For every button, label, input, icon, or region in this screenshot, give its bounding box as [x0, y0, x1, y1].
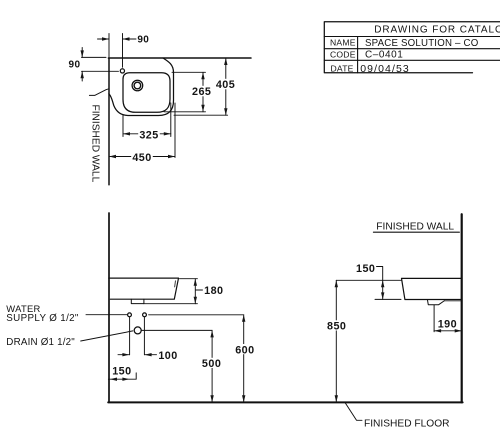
svg-text:FINISHED WALL: FINISHED WALL [376, 221, 454, 232]
svg-text:190: 190 [438, 319, 457, 331]
right sink elevation [402, 278, 462, 299]
right sink fitting to wall [445, 300, 462, 302]
svg-text:09/04/53: 09/04/53 [360, 63, 410, 75]
dim 180: label [204, 285, 223, 297]
svg-text:SPACE SOLUTION – CO: SPACE SOLUTION – CO [365, 38, 479, 49]
dim 180: dimension line [195, 279, 202, 304]
dim 150 right: dimension line [377, 267, 383, 300]
plan view: wall top [108, 57, 251, 59]
sink deck outline (plan) [109, 58, 174, 116]
left sink elevation: rim [109, 278, 179, 299]
dim 500: label [201, 358, 223, 370]
water supply label [6, 303, 79, 324]
svg-text:325: 325 [139, 129, 158, 141]
dim 450: dimension line [109, 156, 175, 158]
dim 150 bottom-left: label [112, 365, 131, 377]
extension to 500 [141, 329, 212, 331]
svg-text:180: 180 [204, 285, 223, 297]
plan view: wall left [108, 58, 110, 185]
dim 265: dimension line [202, 72, 204, 112]
svg-text:NAME: NAME [330, 38, 356, 48]
svg-text:150: 150 [112, 365, 131, 377]
dim 850: dimension line [335, 280, 337, 402]
svg-text:SUPPLY Ø 1/2": SUPPLY Ø 1/2" [6, 313, 79, 324]
svg-text:500: 500 [202, 358, 221, 370]
dim 405: label [215, 79, 237, 91]
left sink drain fitting [131, 299, 144, 303]
dim 265: extension lines [164, 72, 206, 112]
svg-text:600: 600 [235, 344, 254, 356]
dim 450: label [131, 152, 153, 164]
svg-text:850: 850 [327, 321, 346, 333]
title block text [330, 25, 500, 75]
title block border [324, 22, 500, 73]
svg-text:265: 265 [192, 86, 211, 98]
svg-text:150: 150 [356, 263, 375, 275]
dim 325: dimension line [123, 133, 171, 135]
svg-text:DRAIN Ø1 1/2": DRAIN Ø1 1/2" [6, 337, 75, 348]
dim 190: extension line [433, 305, 435, 332]
finished wall label (plan) leader [89, 89, 109, 96]
finished wall label (elevation) [376, 221, 454, 232]
dim 405: extension line bottom [174, 114, 228, 116]
dim 325: label [138, 129, 160, 141]
svg-text:100: 100 [158, 350, 177, 362]
right sink drain fitting [427, 300, 444, 305]
dim 150 right: label [356, 263, 375, 275]
svg-text:405: 405 [216, 79, 235, 91]
left sink elevation: rim inner edge [174, 281, 177, 287]
dim 450: extension line right [174, 103, 176, 158]
water supply leader [86, 314, 127, 316]
dim 850: label [326, 320, 348, 332]
dim 90 left: dimension line [81, 48, 83, 82]
finished floor leader [345, 403, 362, 421]
svg-text:DRAWING FOR CATALOG: DRAWING FOR CATALOG [374, 25, 500, 36]
svg-text:DATE: DATE [331, 64, 354, 74]
dim 100: dimension line [118, 354, 157, 356]
finished wall underline [373, 231, 459, 233]
drain label [6, 337, 75, 348]
dim 100: label [158, 350, 177, 362]
finished floor label [364, 418, 449, 429]
dim 500: dimension line [211, 330, 213, 402]
svg-text:C–0401: C–0401 [365, 50, 403, 61]
dim 600: label [234, 344, 256, 356]
dim 180: extension lines [144, 279, 198, 304]
svg-text:90: 90 [69, 60, 81, 71]
dim 90 left: extension lines [82, 57, 119, 71]
svg-text:CODE: CODE [330, 49, 356, 59]
drain leader [81, 331, 133, 341]
sink bowl (plan) [123, 73, 170, 113]
elevation: wall left [108, 213, 110, 402]
dim 150 bottom-left: dimension line [108, 373, 136, 379]
svg-text:90: 90 [137, 35, 149, 46]
dim 90 left: label [69, 60, 81, 71]
dim 90 top: dimension line [98, 38, 137, 40]
dim 600: dimension line [243, 315, 245, 403]
svg-text:FINISHED WALL: FINISHED WALL [90, 105, 101, 183]
svg-text:FINISHED FLOOR: FINISHED FLOOR [364, 418, 449, 429]
water supply circle 1 [128, 313, 132, 317]
faucet hole [120, 69, 124, 73]
dim 325: extension lines [123, 103, 171, 137]
drain outer [132, 80, 143, 91]
svg-text:450: 450 [132, 152, 151, 164]
dim 90 top: label [137, 35, 149, 46]
finished wall label (plan) [90, 105, 101, 183]
drain inner [134, 82, 141, 89]
dim 850: extension line [336, 279, 401, 281]
drain circle [134, 327, 141, 334]
dim 150 right: extension line [375, 298, 401, 300]
dim 190: dimension line [434, 330, 462, 332]
dim 405: dimension line [225, 58, 227, 115]
dim 190: label [438, 319, 457, 331]
extension to 600 [149, 314, 244, 316]
elevation: floor [108, 401, 462, 403]
dim 265: label [191, 86, 213, 98]
supply drop lines [130, 317, 145, 355]
water supply circle 2 [143, 313, 147, 317]
elevation: wall right [461, 214, 463, 402]
dim 90 top: extension lines [109, 34, 123, 68]
